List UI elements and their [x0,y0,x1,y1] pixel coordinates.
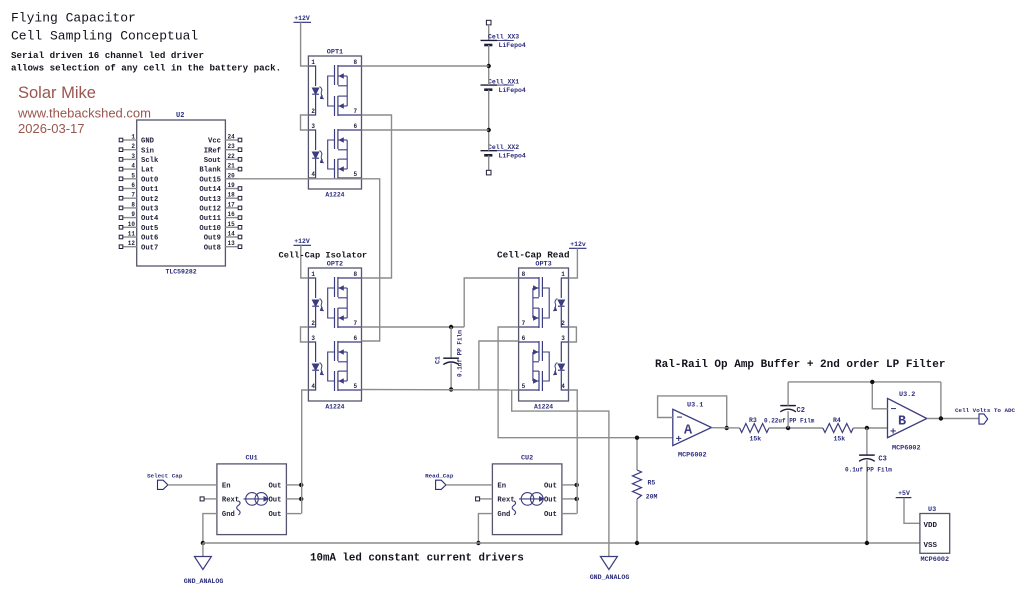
output connector Cell Volts To ADC [955,407,1016,424]
svg-text:Out12: Out12 [199,206,221,214]
wire Read_Cap to CU2 En [446,484,492,486]
U2 pin 21 Blank [199,163,241,175]
wire op-amp A feedback loop [658,396,727,428]
svg-text:19: 19 [228,182,236,189]
wire OPT3 pin6 branch [479,341,519,390]
svg-text:Vcc: Vcc [208,138,221,146]
node C3 bottom on ground rail [865,541,869,545]
svg-text:1: 1 [311,271,315,278]
svg-text:6: 6 [354,335,358,342]
svg-text:B: B [898,415,906,430]
ground GND_ANALOG right [590,543,630,581]
svg-text:5: 5 [131,172,135,179]
svg-text:15k: 15k [834,436,846,443]
svg-text:15: 15 [228,221,236,228]
wire op-amp B feedback from C2 top [788,382,941,419]
svg-text:+12V: +12V [294,238,310,245]
OPT3 pins 2-3 link [569,327,577,342]
U2 pin 13 Out8 [204,240,242,252]
svg-text:4: 4 [131,163,135,170]
svg-text:Out: Out [268,483,281,491]
svg-text:3: 3 [311,123,315,130]
svg-text:7: 7 [522,320,526,327]
U2 pin 8 Out3 [119,201,158,213]
U2 pin 17 Out12 [199,201,241,213]
svg-text:Cell_XX1: Cell_XX1 [488,78,519,85]
svg-text:20M: 20M [646,494,658,501]
svg-text:En: En [222,483,231,491]
svg-text:7: 7 [354,320,358,327]
svg-text:Read_Cap: Read_Cap [425,473,454,480]
battery cell Cell_XX2 LiFepo4 [481,144,526,160]
OPT3 channel 1 LED [553,278,568,327]
wire OPT2 pin4 to CU1 outputs [302,390,309,514]
wire OPT2 pin5 to C1 bottom and OPT3 pin5 [362,389,519,392]
svg-text:U3: U3 [928,506,936,514]
U2 pin 20 Out15 [199,172,238,184]
svg-text:Out0: Out0 [141,176,158,184]
battery terminal bottom [486,170,491,175]
OPT1 pin numbers [311,59,357,178]
svg-text:Out6: Out6 [141,235,158,243]
U2 pin 24 Vcc [208,134,242,146]
U2 pin 16 Out11 [199,211,241,223]
svg-text:23: 23 [228,143,236,150]
U2 pin 18 Out13 [199,192,241,204]
svg-text:OPT3: OPT3 [535,261,551,269]
svg-text:C1: C1 [435,356,442,364]
OPT1 channel 1 MOSFET pair [328,65,362,116]
author block [17,84,151,136]
svg-text:C3: C3 [878,456,886,464]
svg-text:13: 13 [228,240,236,247]
wire OPT1 pin6 to battery lower tap [362,129,489,131]
title text [11,11,198,44]
node C1 bottom junction [449,387,453,391]
OPT2 channel 1 MOSFET pair [328,277,362,328]
CU2 Rext terminal [476,497,493,501]
IC U3 MCP6002 power pins [920,506,950,564]
svg-text:21: 21 [228,163,236,170]
node R5 bottom [635,541,639,545]
svg-text:Out4: Out4 [141,215,159,223]
svg-text:LiFepo4: LiFepo4 [499,42,526,49]
svg-text:−: − [677,414,683,425]
svg-text:MCP6002: MCP6002 [892,445,921,453]
svg-text:17: 17 [228,201,236,208]
svg-text:Out: Out [268,511,281,519]
svg-text:Out14: Out14 [199,186,221,194]
U2 pin 23 IRef [204,143,242,155]
power +5V [896,490,912,498]
node battery tap upper [487,64,491,68]
svg-text:CU1: CU1 [245,455,257,463]
wire CU2 Gnd to analog ground rail [478,514,492,543]
U2 pin 19 Out14 [199,182,241,194]
node R5 top [635,436,639,440]
svg-text:Out: Out [544,497,557,505]
svg-text:Flying Capacitor: Flying Capacitor [11,11,136,26]
optocoupler OPT2 AQW224 body [308,261,361,411]
wire battery cell links [488,45,490,170]
ground GND_ANALOG left [184,543,224,585]
svg-text:8: 8 [354,271,358,278]
svg-text:2: 2 [311,320,315,327]
OPT2 channel 2 LED [308,342,323,390]
optocoupler OPT3 AQW224 body [519,261,569,411]
node battery tap lower [487,128,491,132]
svg-text:Out5: Out5 [141,225,158,233]
optocoupler OPT1 AQW224 body [308,49,361,199]
op-amp U3.1 A MCP6002 [673,402,712,460]
wire R3 to C2 node [769,427,823,429]
svg-text:Blank: Blank [199,167,221,175]
node C1 top junction [449,325,453,329]
svg-text:4: 4 [311,383,315,390]
U2 pin 3 Sclk [119,153,159,165]
svg-text:15k: 15k [750,436,762,443]
svg-text:Gnd: Gnd [497,511,510,519]
svg-text:1: 1 [131,134,135,141]
resistor R5 20M [633,438,658,543]
svg-text:10mA led constant current driv: 10mA led constant current drivers [310,553,524,565]
U2 pin 22 Sout [204,153,242,165]
U2 pin 11 Out6 [119,231,158,243]
svg-text:Out: Out [544,511,557,519]
svg-text:5: 5 [354,171,358,178]
U2 pin 4 Lat [119,163,154,175]
power +12V for OPT1 [294,15,312,22]
svg-text:U2: U2 [176,112,184,120]
OPT2 channel 2 MOSFET pair [328,341,362,391]
svg-text:Sout: Sout [204,157,221,165]
svg-text:Rext: Rext [497,497,514,505]
svg-text:Out2: Out2 [141,196,158,204]
U2 pin 1 GND [119,134,154,146]
current driver CU1 body [217,455,287,535]
svg-text:0.1uf PP Film: 0.1uf PP Film [457,330,464,377]
svg-text:9: 9 [131,211,135,218]
svg-text:A1224: A1224 [325,192,344,199]
svg-text:4: 4 [311,171,315,178]
svg-text:22: 22 [228,153,236,160]
svg-text:3: 3 [131,153,135,160]
wire OPT3 pin7 to op-amp buffer input [498,327,673,438]
svg-text:Out1: Out1 [141,186,159,194]
svg-text:CU2: CU2 [521,455,533,463]
current driver CU2 body [492,455,562,535]
svg-text:OPT2: OPT2 [327,261,343,269]
svg-text:6: 6 [354,123,358,130]
svg-text:2026-03-17: 2026-03-17 [18,121,85,136]
power +12V for OPT2 [294,238,312,245]
wire +5V to U3 VDD [904,498,920,524]
svg-text:Sclk: Sclk [141,157,159,165]
svg-text:Ral-Rail Op Amp Buffer + 2nd o: Ral-Rail Op Amp Buffer + 2nd order LP Fi… [655,359,945,371]
capacitor C3 0.1uf PP Film [845,428,892,543]
node CU2 output junctions [575,483,579,501]
svg-text:U3.2: U3.2 [899,391,915,399]
wire OPT1 pin7 to OPT2 pin8 [362,115,392,278]
svg-text:8: 8 [354,59,358,66]
svg-text:6: 6 [131,182,135,189]
svg-text:R3: R3 [749,417,757,424]
CU1 Rext terminal [200,497,217,501]
svg-text:Solar Mike: Solar Mike [18,84,96,102]
svg-text:En: En [497,483,506,491]
svg-text:5: 5 [354,383,358,390]
OPT3 pin numbers [522,271,566,390]
wire +12V to OPT2 pin 1 [301,245,309,278]
wire U2 pin20 Out15 to OPT1 pins 4/5 and OPT2 pin6 [225,179,379,341]
OPT1 channel 2 LED [308,130,323,178]
svg-text:7: 7 [131,192,135,199]
svg-text:Gnd: Gnd [222,511,235,519]
svg-text:+: + [676,434,682,446]
svg-text:Out3: Out3 [141,206,158,214]
svg-text:0.1uf PP Film: 0.1uf PP Film [845,467,892,474]
OPT1 pins 2-3 link [301,115,309,130]
svg-text:12: 12 [128,240,136,247]
svg-text:Cell_XX2: Cell_XX2 [488,144,519,151]
svg-text:8: 8 [131,201,135,208]
svg-text:Out9: Out9 [204,235,221,243]
capacitor C2 0.22uf PP Film [764,382,815,428]
svg-text:OPT1: OPT1 [327,49,343,57]
svg-text:Cell Sampling Conceptual: Cell Sampling Conceptual [11,29,198,44]
svg-text:10: 10 [128,221,136,228]
svg-text:+12V: +12V [294,15,310,22]
svg-text:TLC59282: TLC59282 [165,269,196,276]
OPT3 channel 2 MOSFET pair [519,341,550,391]
input connector Select Cap [147,473,183,490]
svg-text:C2: C2 [797,407,805,415]
svg-text:6: 6 [522,335,526,342]
U2 pin 6 Out1 [119,182,159,194]
svg-text:IRef: IRef [204,147,221,155]
wire OPT3 pin4 to CU2 outputs [569,390,578,514]
OPT2 pin numbers [311,271,357,390]
OPT2 pins 2-3 link [301,327,309,342]
svg-text:A1224: A1224 [534,404,553,411]
svg-text:8: 8 [522,271,526,278]
subtitle text [11,50,281,74]
svg-text:7: 7 [354,108,358,115]
resistor R4 15k [823,417,854,443]
U2 pin 15 Out10 [199,221,241,233]
input connector Read_Cap [425,473,454,490]
svg-text:MCP6002: MCP6002 [921,556,950,564]
svg-text:−: − [891,405,897,416]
svg-text:3: 3 [561,335,565,342]
wire CU1 Gnd to analog ground rail [203,514,217,543]
OPT1 channel 1 LED [308,66,323,115]
svg-text:Out7: Out7 [141,244,158,252]
wire +12v to OPT3 pin 1 [569,248,578,278]
CU1 current source symbol [237,493,269,515]
IC U2 TLC59282 body [137,112,226,276]
svg-text:Out11: Out11 [199,215,221,223]
svg-text:Cell-Cap Isolator: Cell-Cap Isolator [279,251,368,261]
svg-text:1: 1 [561,271,565,278]
svg-text:+5V: +5V [898,490,910,497]
svg-text:Out8: Out8 [204,244,221,252]
svg-text:R5: R5 [648,480,656,487]
svg-text:0.22uf PP Film: 0.22uf PP Film [764,418,815,425]
svg-text:Select Cap: Select Cap [147,473,183,480]
power +12v for OPT3 [569,241,587,248]
wire R4 to op-amp B input [853,427,887,429]
U2 pin 2 Sin [119,143,154,155]
svg-text:16: 16 [228,211,236,218]
svg-text:VSS: VSS [924,542,938,550]
OPT3 channel 1 MOSFET pair [519,277,550,328]
battery cell Cell_XX1 LiFepo4 [481,78,526,94]
node CU1 output junctions [299,483,303,501]
svg-text:www.thebackshed.com: www.thebackshed.com [17,106,151,121]
node op-amp A output [725,426,729,430]
CU1 pin labels [222,483,282,520]
svg-text:2: 2 [311,108,315,115]
svg-text:GND: GND [141,138,155,146]
U2 pin 14 Out9 [204,231,242,243]
svg-text:11: 11 [128,231,136,238]
op-amp U3.2 B MCP6002 [888,391,927,453]
node C2 tap [786,426,790,430]
U2 pin 9 Out4 [119,211,159,223]
svg-text:1: 1 [311,59,315,66]
svg-text:Out15: Out15 [199,176,221,184]
svg-text:Out: Out [544,483,557,491]
svg-text:14: 14 [228,231,236,238]
svg-text:24: 24 [228,134,236,141]
svg-text:Sin: Sin [141,147,154,155]
wire OPT2 pin7 to C1 top and OPT3 pin8 [362,278,519,327]
svg-text:A: A [684,424,693,439]
svg-text:allows selection of any cell i: allows selection of any cell in the batt… [11,63,281,74]
node feedback junction [870,380,874,384]
battery cell Cell_XX3 LiFepo4 [481,34,526,50]
svg-text:5: 5 [522,383,526,390]
CU2 pin labels [497,483,557,520]
svg-text:R4: R4 [833,417,841,424]
node C3 tap [865,426,869,430]
wire OPT3 pin5 net to analog ground [512,390,609,543]
svg-text:Cell_XX3: Cell_XX3 [488,34,519,41]
svg-text:Out10: Out10 [199,225,221,233]
CU2 output stubs [562,485,577,514]
svg-text:Lat: Lat [141,167,154,175]
svg-text:Out: Out [268,497,281,505]
svg-text:LiFepo4: LiFepo4 [499,153,526,160]
svg-text:LiFepo4: LiFepo4 [499,87,526,94]
svg-text:18: 18 [228,192,236,199]
wire Select Cap to CU1 En [168,484,217,486]
svg-text:Out13: Out13 [199,196,221,204]
wire OPT1 pin8 to battery top tap [362,65,489,67]
OPT2 channel 1 LED [308,278,323,327]
svg-text:+12v: +12v [570,241,586,248]
resistor R3 15k [740,417,769,443]
svg-text:2: 2 [131,143,135,150]
svg-text:U3.1: U3.1 [687,402,703,410]
U2 pin 10 Out5 [119,221,158,233]
U2 pin 12 Out7 [119,240,158,252]
CU2 current source symbol [512,493,544,515]
svg-text:Cell-Cap Read: Cell-Cap Read [497,250,570,261]
svg-text:3: 3 [311,335,315,342]
svg-text:VDD: VDD [924,522,938,530]
OPT1 channel 2 MOSFET pair [328,129,362,179]
wire op-amp A output to R3 [712,427,740,429]
wire op-amp B output [927,418,979,420]
svg-text:Rext: Rext [222,497,239,505]
CU1 output stubs [286,485,301,514]
wire +12V to OPT1 pin 1 [301,22,309,66]
svg-text:A1224: A1224 [325,404,344,411]
U2 pin 7 Out2 [119,192,158,204]
svg-text:Serial driven 16 channel led d: Serial driven 16 channel led driver [11,50,204,61]
battery terminal top [486,20,491,40]
node op-amp B output [939,416,943,420]
svg-text:GND_ANALOG: GND_ANALOG [184,578,224,585]
wire analog ground rail [203,542,920,544]
capacitor C1 0.1uf PP Film [435,327,464,390]
U2 pin 5 Out0 [119,172,158,184]
svg-text:GND_ANALOG: GND_ANALOG [590,574,630,581]
svg-text:+: + [890,427,896,439]
svg-text:Cell Volts To ADC: Cell Volts To ADC [955,407,1016,414]
OPT3 channel 2 LED [553,342,568,390]
svg-text:MCP6002: MCP6002 [678,452,707,460]
